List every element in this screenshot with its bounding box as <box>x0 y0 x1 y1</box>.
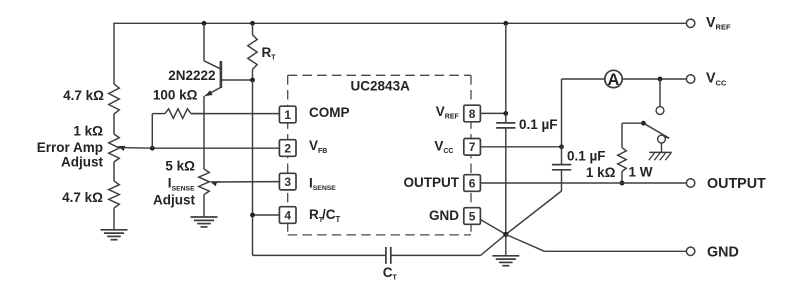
svg-text:7: 7 <box>469 140 476 154</box>
potentiometer 1k Error Amp Adjust <box>109 134 120 162</box>
resistor 1k 1W <box>618 148 627 172</box>
wire pin8 to cap1 <box>480 112 505 114</box>
resistor R1 4.7k <box>109 84 120 114</box>
svg-text:5 kΩ: 5 kΩ <box>165 159 195 174</box>
svg-text:1 kΩ: 1 kΩ <box>586 165 616 180</box>
value label 1 kOhm right <box>586 165 616 180</box>
wire ammeter to Vcc terminal <box>622 78 686 80</box>
svg-text:5: 5 <box>469 209 476 223</box>
svg-text:8: 8 <box>469 107 476 121</box>
wire switch to 1k resistor <box>622 123 643 147</box>
node rail-RT junction <box>250 21 255 26</box>
ammeter A1 <box>605 70 622 89</box>
node switch blade dot <box>641 121 646 126</box>
svg-text:/CT: /CT <box>322 207 341 224</box>
pin label OUTPUT inside <box>404 175 460 190</box>
svg-text:ISENSE: ISENSE <box>168 176 195 193</box>
terminal label GND <box>707 244 739 260</box>
wire pin7 to vcc node <box>480 146 561 148</box>
value label 4.7 kOhm upper <box>63 88 104 103</box>
wire RT/CT net vertical <box>252 80 254 255</box>
transistor Q1 collector diagonal <box>204 61 220 69</box>
svg-text:OUTPUT: OUTPUT <box>707 176 766 192</box>
terminal OUTPUT <box>686 179 694 187</box>
wire CT bottom horizontal right <box>391 254 481 256</box>
wire 5k wiper to Isense pin3 <box>214 181 279 183</box>
switch blade <box>643 123 669 138</box>
capacitor CT plates <box>386 247 391 264</box>
ground 5k pot <box>191 217 218 227</box>
svg-text:VCC: VCC <box>434 139 453 156</box>
pin label COMP <box>309 105 350 120</box>
terminal label VREF <box>706 15 731 32</box>
svg-text:0.1 µF: 0.1 µF <box>519 117 558 132</box>
wire VREF rail drop <box>505 23 507 122</box>
svg-text:Adjust: Adjust <box>61 154 104 169</box>
terminal VCC <box>686 75 694 83</box>
wire RT/CT to pin4 <box>253 214 280 216</box>
wire 100k left lead down <box>151 114 153 149</box>
wire 5k pot to ground <box>203 195 205 217</box>
wire left rail top <box>113 23 115 84</box>
wiper arrow 5k pot <box>210 181 221 186</box>
terminal label VCC <box>706 71 727 88</box>
svg-text:4.7 kΩ: 4.7 kΩ <box>62 190 103 205</box>
svg-text:1: 1 <box>284 108 291 122</box>
svg-text:1 kΩ: 1 kΩ <box>73 124 103 139</box>
wire OUTPUT pin6 to terminal <box>480 182 686 184</box>
potentiometer 5k Isense <box>199 169 210 195</box>
wire pot-R2 <box>113 162 115 181</box>
wire wiper to VFB pin2 <box>152 147 279 149</box>
svg-text:ISENSE: ISENSE <box>309 175 336 192</box>
label UC2843A <box>351 78 411 93</box>
pin 6 box <box>464 175 481 192</box>
terminal GND <box>686 247 694 255</box>
resistor RT <box>248 35 257 70</box>
svg-text:VREF: VREF <box>436 104 460 121</box>
pin label ISENSE <box>309 175 336 192</box>
pin label GND inside <box>429 208 459 223</box>
value label 1 W <box>629 165 653 180</box>
wire R1-pot <box>113 114 115 134</box>
wire vcc vertical up <box>561 79 563 147</box>
wire vcc to ammeter <box>562 78 605 80</box>
wire top V_REF rail <box>114 22 686 24</box>
wire 1k to output line <box>621 172 623 184</box>
node ground junction <box>503 232 508 237</box>
wire cap2 down <box>561 170 563 191</box>
ground left divider <box>101 230 128 240</box>
svg-text:OUTPUT: OUTPUT <box>404 175 460 190</box>
wire COMP pin1 lead <box>191 113 279 115</box>
op-amp U1 UC2843A dashed outline <box>288 75 471 235</box>
chassis ground switch <box>649 152 672 160</box>
pin 4 box <box>279 207 296 224</box>
wire R2-ground <box>113 208 115 230</box>
wiper arrow 1k pot <box>118 146 153 151</box>
wire cap2 diagonal to ground junction <box>506 191 562 234</box>
pin label VCC inside <box>434 139 453 156</box>
transistor Q1 2N2222 collector wire <box>203 23 205 61</box>
svg-text:GND: GND <box>707 244 739 260</box>
svg-text:2N2222: 2N2222 <box>168 68 215 83</box>
node vcc-switch junction <box>658 77 663 82</box>
value label 1 kOhm pot <box>73 124 103 139</box>
label CT <box>383 265 398 282</box>
pin label VFB <box>309 138 327 155</box>
svg-text:VFB: VFB <box>309 138 327 155</box>
node wiper-100k junction <box>150 146 155 151</box>
node rail-collector junction <box>202 21 207 26</box>
svg-text:3: 3 <box>284 175 291 189</box>
svg-text:VCC: VCC <box>706 71 727 88</box>
chassis ground stem <box>661 143 663 152</box>
ground junction stem <box>505 234 507 255</box>
svg-text:RT: RT <box>262 45 277 62</box>
svg-text:VREF: VREF <box>706 15 731 32</box>
wire RT bottom to base node <box>252 69 254 80</box>
pin label RT/CT <box>309 207 341 224</box>
pin 2 box <box>279 140 296 157</box>
wire pin5 diagonal to ground junction <box>480 220 505 235</box>
terminal VREF <box>686 19 694 27</box>
capacitor C1 0.1uF plates <box>496 123 515 128</box>
svg-text:Error Amp: Error Amp <box>37 140 103 155</box>
node RT-base junction <box>250 78 255 83</box>
svg-text:CT: CT <box>383 265 398 282</box>
ground main junction <box>492 256 519 266</box>
svg-text:2: 2 <box>284 141 291 155</box>
wire Q1 emitter down <box>203 96 205 169</box>
node pin7-cap2-ammeter junction <box>559 144 564 149</box>
svg-text:4: 4 <box>284 208 291 222</box>
wire CT bottom horizontal left <box>253 254 386 256</box>
value label 100 kOhm <box>153 88 198 103</box>
svg-text:UC2843A: UC2843A <box>351 78 411 93</box>
capacitor C2 0.1uF plates <box>552 165 571 170</box>
svg-text:1 W: 1 W <box>629 165 653 180</box>
svg-text:COMP: COMP <box>309 105 350 120</box>
label Error Amp <box>37 140 103 155</box>
value label 4.7 kOhm lower <box>62 190 103 205</box>
wire cap1 to ground junction <box>505 128 507 234</box>
switch pivot circle <box>658 135 670 143</box>
label Adjust <box>61 154 104 169</box>
pin 8 box <box>464 105 481 122</box>
svg-text:Adjust: Adjust <box>153 192 196 207</box>
node pin8-cap1 junction <box>503 111 508 116</box>
pin 7 box <box>464 139 481 156</box>
pin label VREF inside <box>436 104 460 121</box>
node rail-VREF-drop junction <box>503 21 508 26</box>
label RT <box>262 45 277 62</box>
resistor 100k <box>152 109 204 119</box>
wire CT diagonal to ground junction <box>481 234 506 255</box>
value label 5 kOhm <box>165 159 195 174</box>
svg-text:A: A <box>608 71 620 89</box>
node pin4 junction <box>250 213 255 218</box>
svg-text:100 kΩ: 100 kΩ <box>153 88 198 103</box>
pin 1 box <box>279 106 296 123</box>
wire vcc to switch contact <box>659 79 661 107</box>
value label 0.1 uF C1 <box>519 117 558 132</box>
transistor Q1 emitter diagonal <box>205 88 220 96</box>
terminal label OUTPUT <box>707 176 766 192</box>
pin 3 box <box>279 173 296 190</box>
wire ground junction to GND terminal <box>506 234 687 251</box>
wire Q1 base to RT <box>221 79 253 81</box>
value label 0.1 uF C2 <box>567 148 606 163</box>
transistor Q1 base bar <box>220 61 223 88</box>
wire vcc node to cap2 <box>561 147 563 165</box>
svg-text:4.7 kΩ: 4.7 kΩ <box>63 88 104 103</box>
node 1k-output junction <box>620 181 625 186</box>
resistor RT lead top <box>252 23 254 34</box>
label Adjust 5k <box>153 192 196 207</box>
label 2N2222 <box>168 68 215 83</box>
svg-text:6: 6 <box>469 176 476 190</box>
svg-text:0.1 µF: 0.1 µF <box>567 148 606 163</box>
resistor R2 4.7k <box>109 181 120 208</box>
switch contact upper circle <box>656 107 664 115</box>
pin 5 box <box>464 208 481 225</box>
svg-text:GND: GND <box>429 208 459 223</box>
label Isense <box>168 176 195 193</box>
